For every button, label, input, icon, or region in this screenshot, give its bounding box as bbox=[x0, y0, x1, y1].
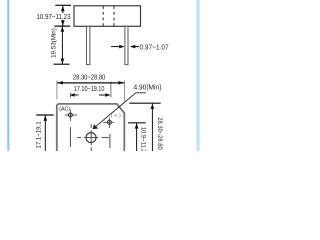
AC terminal hole bbox=[68, 113, 72, 117]
body rectangle bbox=[74, 6, 141, 27]
body outline with chamfer bbox=[57, 104, 125, 151]
dimension 28.30~28.80 top bbox=[57, 82, 125, 84]
svg-text:(AC): (AC) bbox=[59, 107, 70, 113]
svg-text:17.1~19.1: 17.1~19.1 bbox=[36, 121, 42, 149]
AC centerline dash bbox=[69, 127, 71, 147]
extension bar bottom (lead ends) bbox=[54, 63, 70, 65]
plus terminal hole bbox=[107, 120, 111, 124]
page border left bbox=[7, 0, 9, 151]
leader 4.90(Min) bbox=[136, 92, 146, 94]
dimension 28.30~28.80 outer right bbox=[129, 102, 160, 104]
extension bar middle (body bottom) bbox=[54, 25, 70, 27]
svg-text:4.90(Min): 4.90(Min) bbox=[134, 85, 162, 92]
svg-text:28.30~28.80: 28.30~28.80 bbox=[156, 117, 162, 150]
hidden lead dashed line right bbox=[113, 6, 115, 26]
lead width arrows bbox=[111, 46, 120, 48]
svg-text:(+): (+) bbox=[111, 113, 121, 119]
extension bar top (body top) bbox=[55, 4, 71, 6]
dimension 17.10~19.10 line bbox=[75, 94, 79, 96]
svg-text:10.9~11.2: 10.9~11.2 bbox=[139, 127, 145, 151]
dimension line lead length 19.53 bbox=[61, 26, 63, 64]
svg-text:0.97~1.07: 0.97~1.07 bbox=[140, 44, 169, 51]
extension line left bbox=[56, 80, 58, 99]
svg-text:28.30~28.80: 28.30~28.80 bbox=[73, 74, 105, 82]
right leg bbox=[125, 26, 128, 64]
hidden lead dashed line left bbox=[102, 6, 104, 26]
plus centerline tick above bbox=[110, 82, 112, 98]
dimension 10.9~11.2 inner right bbox=[128, 122, 146, 124]
page border right bbox=[197, 0, 200, 151]
center mounting hole bbox=[86, 133, 96, 143]
dimension line body height bbox=[62, 6, 64, 13]
dimension 17.1~19.1 left bbox=[36, 114, 53, 116]
extension line right bbox=[124, 80, 126, 101]
svg-text:17.10~19.10: 17.10~19.10 bbox=[74, 86, 105, 93]
svg-text:10.97~11.23: 10.97~11.23 bbox=[37, 13, 71, 21]
tick AC centerline bbox=[69, 93, 71, 98]
svg-text:19.53(Min): 19.53(Min) bbox=[52, 28, 58, 58]
plus centerline dash bbox=[109, 134, 111, 148]
left leg bbox=[87, 26, 90, 64]
